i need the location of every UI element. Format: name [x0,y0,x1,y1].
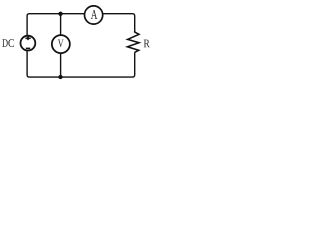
DC source [21,36,36,51]
ammeter A [85,6,103,24]
voltmeter V [52,35,70,53]
label DC [2,39,14,47]
label R [144,40,150,48]
DC source minus terminal mark [26,47,30,49]
wire: outer circuit loop (top, left, bottom, and right stubs) [27,14,135,77]
wire: voltmeter branch [60,14,62,77]
DC source plus terminal mark [25,36,30,40]
resistor R [127,30,139,52]
junction node: top [58,12,62,16]
junction node: bottom [58,75,62,79]
